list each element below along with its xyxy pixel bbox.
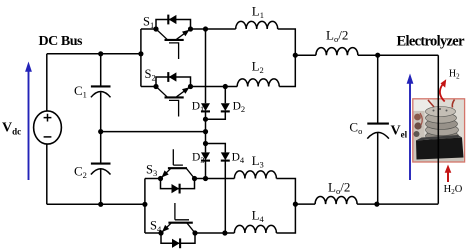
arrow Vdc (blue) <box>25 62 32 181</box>
diode D1 <box>201 29 210 144</box>
wire stub to S2 left <box>141 86 156 88</box>
inductor L4 <box>234 225 276 233</box>
wire stub to S4 left <box>145 232 161 234</box>
wire L3 out to junction <box>276 179 295 234</box>
inductor L2 <box>237 79 279 87</box>
node D3-D4 split <box>203 141 208 146</box>
inductor L3 <box>234 171 276 179</box>
node L3-L4 junction <box>293 202 298 207</box>
inductor Lo/2 bottom <box>315 197 357 205</box>
wire S3-S4 left vertical <box>144 179 146 234</box>
wire left rail upper (bus to Vdc) <box>46 54 48 111</box>
node mid rail left <box>98 129 103 134</box>
arrow H2O (red) <box>445 165 452 183</box>
capacitor C1 <box>91 54 111 132</box>
capacitor C2 <box>91 132 111 205</box>
wire top Lo/2 out to output corner <box>358 54 438 56</box>
diode D4 <box>206 144 230 234</box>
wire left rail lower (Vdc to bottom rail) <box>46 144 48 204</box>
node top output <box>375 53 380 58</box>
electrolyzer photo <box>413 99 465 162</box>
wire L1 out to junction <box>278 29 296 87</box>
arrow H2 (red curved) <box>440 79 446 101</box>
wire stub to S1 left <box>141 28 156 30</box>
diode D2 <box>206 87 230 120</box>
diode D3 <box>201 144 210 179</box>
wire mid rail C-midpoint to diode chain <box>101 131 206 133</box>
IGBT switch S3 <box>158 149 197 193</box>
IGBT switch S1 <box>153 15 193 59</box>
node D2 top <box>223 84 228 89</box>
voltage source Vdc <box>34 111 62 144</box>
node L1-L2 junction <box>293 53 298 58</box>
wire S4 output to L4 <box>195 232 234 234</box>
wire S2 output to L2 <box>191 86 238 88</box>
node bus corner <box>138 51 143 56</box>
svg-text:Electrolyzer: Electrolyzer <box>397 34 466 50</box>
inductor L1 <box>236 21 278 29</box>
wire top DC bus rail <box>47 53 141 55</box>
node D1-D2 junction <box>203 117 208 122</box>
wire bottom rail <box>47 203 145 205</box>
node bottom output <box>374 202 379 207</box>
arrow Vel (blue) <box>407 74 414 181</box>
inductor Lo/2 top <box>316 48 358 56</box>
wire junction to top Lo/2 <box>295 54 316 56</box>
node D1 top <box>203 26 208 31</box>
wire junction to bottom Lo/2 <box>295 203 315 205</box>
svg-text:DC Bus: DC Bus <box>39 34 84 49</box>
node bus-C1 top <box>98 51 103 56</box>
IGBT switch S4 <box>158 203 197 248</box>
IGBT switch S2 <box>153 72 193 116</box>
node rail to S3S4 vertical <box>142 202 147 207</box>
node mid rail right <box>203 129 208 134</box>
node D3 bottom <box>203 176 208 181</box>
wire S3 output to L3 <box>195 178 235 180</box>
capacitor Co <box>367 55 389 204</box>
wire S1 output to L1 <box>191 28 236 30</box>
wire right vertical (output to electrolyzer) <box>437 55 439 204</box>
wire stub to S3 left <box>145 178 161 180</box>
node C2 bottom on rail <box>98 202 103 207</box>
node D4 bottom <box>222 230 227 235</box>
wire bottom Lo/2 out to bottom output corner <box>357 203 438 205</box>
wire S1-S2 left vertical <box>140 29 142 87</box>
